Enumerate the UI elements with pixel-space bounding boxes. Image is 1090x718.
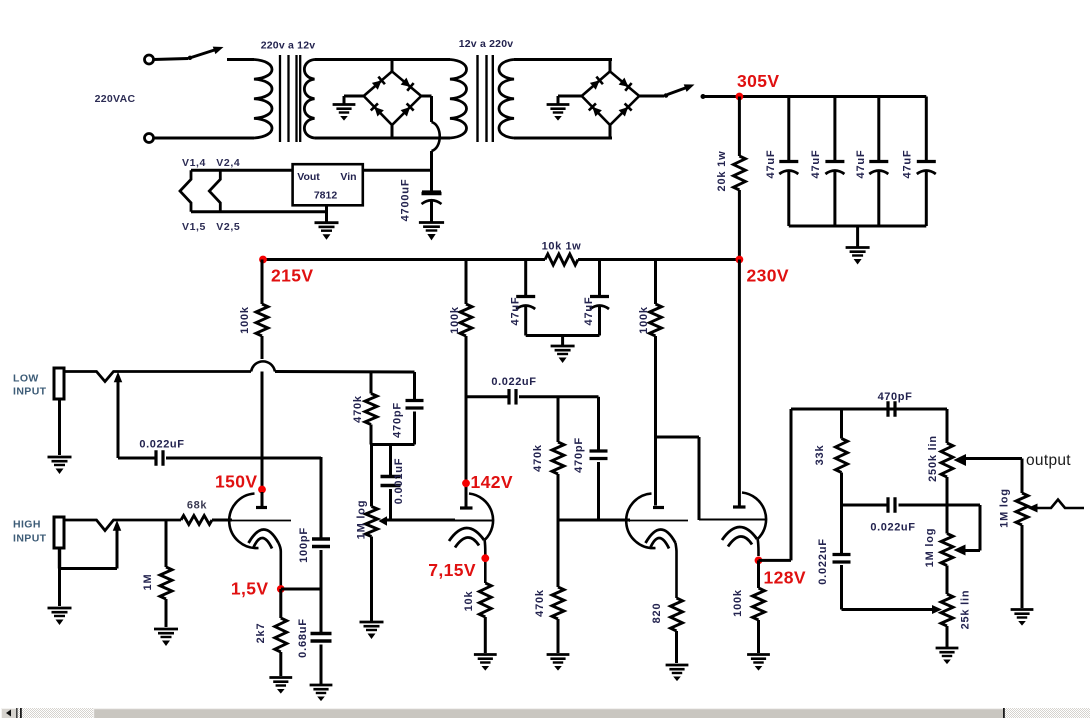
svg-text:1M: 1M bbox=[142, 574, 154, 591]
svg-text:470k: 470k bbox=[352, 395, 364, 423]
svg-text:V2,4: V2,4 bbox=[216, 157, 240, 169]
svg-text:Vin: Vin bbox=[340, 171, 356, 183]
svg-text:220v a 12v: 220v a 12v bbox=[261, 40, 316, 52]
svg-text:100k: 100k bbox=[239, 306, 251, 334]
svg-text:INPUT: INPUT bbox=[13, 533, 47, 545]
svg-text:1M log: 1M log bbox=[356, 500, 368, 540]
svg-text:470k: 470k bbox=[532, 444, 544, 472]
svg-text:220VAC: 220VAC bbox=[95, 93, 136, 105]
svg-text:100k: 100k bbox=[449, 306, 461, 334]
svg-text:20k 1w: 20k 1w bbox=[716, 151, 728, 192]
svg-text:470pF: 470pF bbox=[573, 437, 585, 473]
svg-text:47uF: 47uF bbox=[902, 150, 914, 179]
svg-text:100pF: 100pF bbox=[298, 527, 310, 563]
svg-text:1,5V: 1,5V bbox=[231, 579, 269, 599]
svg-text:0.022uF: 0.022uF bbox=[817, 538, 829, 585]
svg-text:230V: 230V bbox=[747, 266, 789, 286]
svg-text:0.001uF: 0.001uF bbox=[393, 458, 405, 505]
svg-text:output: output bbox=[1026, 452, 1071, 469]
svg-text:250k lin: 250k lin bbox=[927, 435, 939, 482]
svg-text:470pF: 470pF bbox=[878, 391, 913, 403]
svg-text:0.022uF: 0.022uF bbox=[870, 522, 915, 534]
svg-text:10k 1w: 10k 1w bbox=[542, 241, 582, 253]
svg-text:68k: 68k bbox=[187, 500, 207, 512]
svg-text:INPUT: INPUT bbox=[13, 386, 47, 398]
svg-text:0.022uF: 0.022uF bbox=[139, 439, 184, 451]
svg-text:33k: 33k bbox=[814, 445, 826, 466]
svg-text:4700uF: 4700uF bbox=[400, 179, 412, 222]
svg-text:LOW: LOW bbox=[13, 373, 39, 385]
svg-text:12v a 220v: 12v a 220v bbox=[459, 38, 514, 50]
svg-text:142V: 142V bbox=[471, 472, 513, 492]
svg-text:V1,4: V1,4 bbox=[182, 157, 206, 169]
svg-text:470pF: 470pF bbox=[392, 402, 404, 438]
svg-text:2k7: 2k7 bbox=[255, 623, 267, 644]
svg-text:215V: 215V bbox=[271, 266, 313, 286]
svg-text:V1,5: V1,5 bbox=[182, 221, 206, 233]
svg-text:305V: 305V bbox=[737, 71, 779, 91]
svg-text:10k: 10k bbox=[463, 591, 475, 612]
svg-text:7,15V: 7,15V bbox=[428, 560, 476, 580]
svg-text:820: 820 bbox=[651, 603, 663, 624]
svg-text:Vout: Vout bbox=[297, 171, 320, 183]
svg-text:47uF: 47uF bbox=[583, 297, 595, 326]
svg-text:47uF: 47uF bbox=[765, 150, 777, 179]
svg-text:128V: 128V bbox=[764, 568, 806, 588]
svg-text:25k lin: 25k lin bbox=[960, 590, 972, 630]
svg-text:47uF: 47uF bbox=[810, 150, 822, 179]
svg-text:47uF: 47uF bbox=[510, 297, 522, 326]
svg-text:47uF: 47uF bbox=[855, 150, 867, 179]
svg-text:150V: 150V bbox=[215, 472, 257, 492]
svg-text:1M log: 1M log bbox=[924, 528, 936, 568]
svg-text:1M log: 1M log bbox=[999, 488, 1011, 528]
svg-text:0.022uF: 0.022uF bbox=[491, 376, 536, 388]
svg-text:HIGH: HIGH bbox=[13, 519, 41, 531]
svg-text:100k: 100k bbox=[638, 306, 650, 334]
svg-text:V2,5: V2,5 bbox=[216, 221, 240, 233]
svg-text:470k: 470k bbox=[534, 589, 546, 617]
svg-text:7812: 7812 bbox=[314, 190, 338, 202]
svg-text:0.68uF: 0.68uF bbox=[297, 618, 309, 658]
svg-text:100k: 100k bbox=[732, 589, 744, 617]
